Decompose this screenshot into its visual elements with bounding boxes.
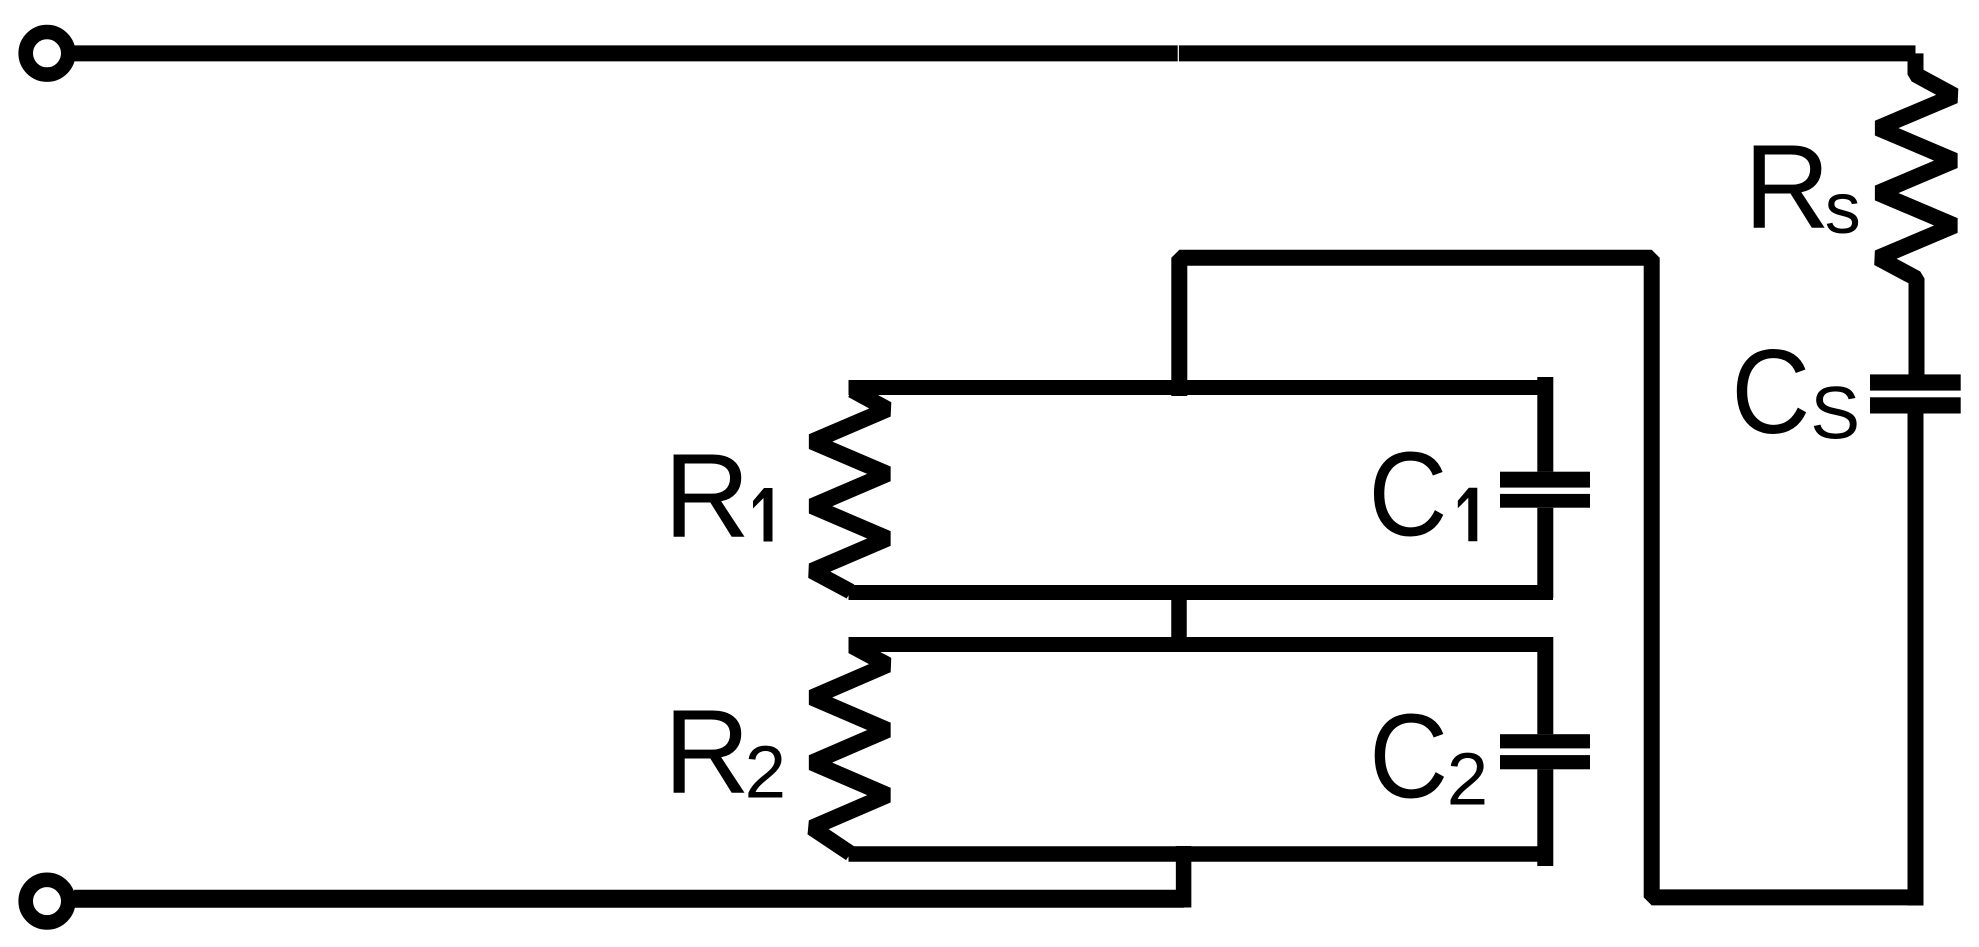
label R1 xyxy=(664,429,773,562)
node seam on top wire xyxy=(1178,45,1179,61)
svg-text:s: s xyxy=(1825,169,1861,249)
wire rail R1C1 bottom xyxy=(849,585,1554,600)
svg-text:C: C xyxy=(1369,691,1448,824)
wire middle connector (R1C1 to R2C2) xyxy=(1171,586,1187,652)
label R2 xyxy=(664,686,786,819)
svg-text:C: C xyxy=(1368,429,1447,562)
svg-text:R: R xyxy=(664,429,750,562)
wire bottom (T2 to connector) xyxy=(74,890,1184,908)
svg-text:S: S xyxy=(1810,372,1860,455)
svg-text:R: R xyxy=(1744,120,1830,253)
wire bottom-right and outer loop (corner, left, up, to block drop) xyxy=(1179,258,1915,898)
wire bottom connector (R2C2 to bottom wire) xyxy=(1176,846,1192,908)
capacitor C2 xyxy=(1500,637,1590,866)
wire rail R2C2 bottom xyxy=(849,846,1554,862)
svg-text:2: 2 xyxy=(745,731,786,814)
resistor R2 xyxy=(812,646,888,854)
wire right vertical (Cs to bottom-right corner) xyxy=(1908,414,1924,906)
resistor R1 xyxy=(812,390,888,592)
capacitor C1 xyxy=(1500,377,1590,598)
label C2 xyxy=(1369,691,1488,824)
label Rs xyxy=(1744,120,1861,253)
label Cs xyxy=(1731,326,1860,459)
svg-text:C: C xyxy=(1731,326,1810,459)
capacitor Cs xyxy=(1870,374,1961,413)
label C1 xyxy=(1368,429,1477,562)
wire rail R1C1 top xyxy=(849,380,1554,395)
resistor Rs xyxy=(1878,53,1955,382)
wire rail R2C2 top xyxy=(849,637,1554,652)
svg-text:2: 2 xyxy=(1447,738,1488,821)
terminal T2 (bottom-left) xyxy=(26,880,69,923)
svg-text:R: R xyxy=(664,686,750,819)
wire top (T1 to Rs) xyxy=(74,45,1916,61)
terminal T1 (top-left) xyxy=(26,32,69,75)
